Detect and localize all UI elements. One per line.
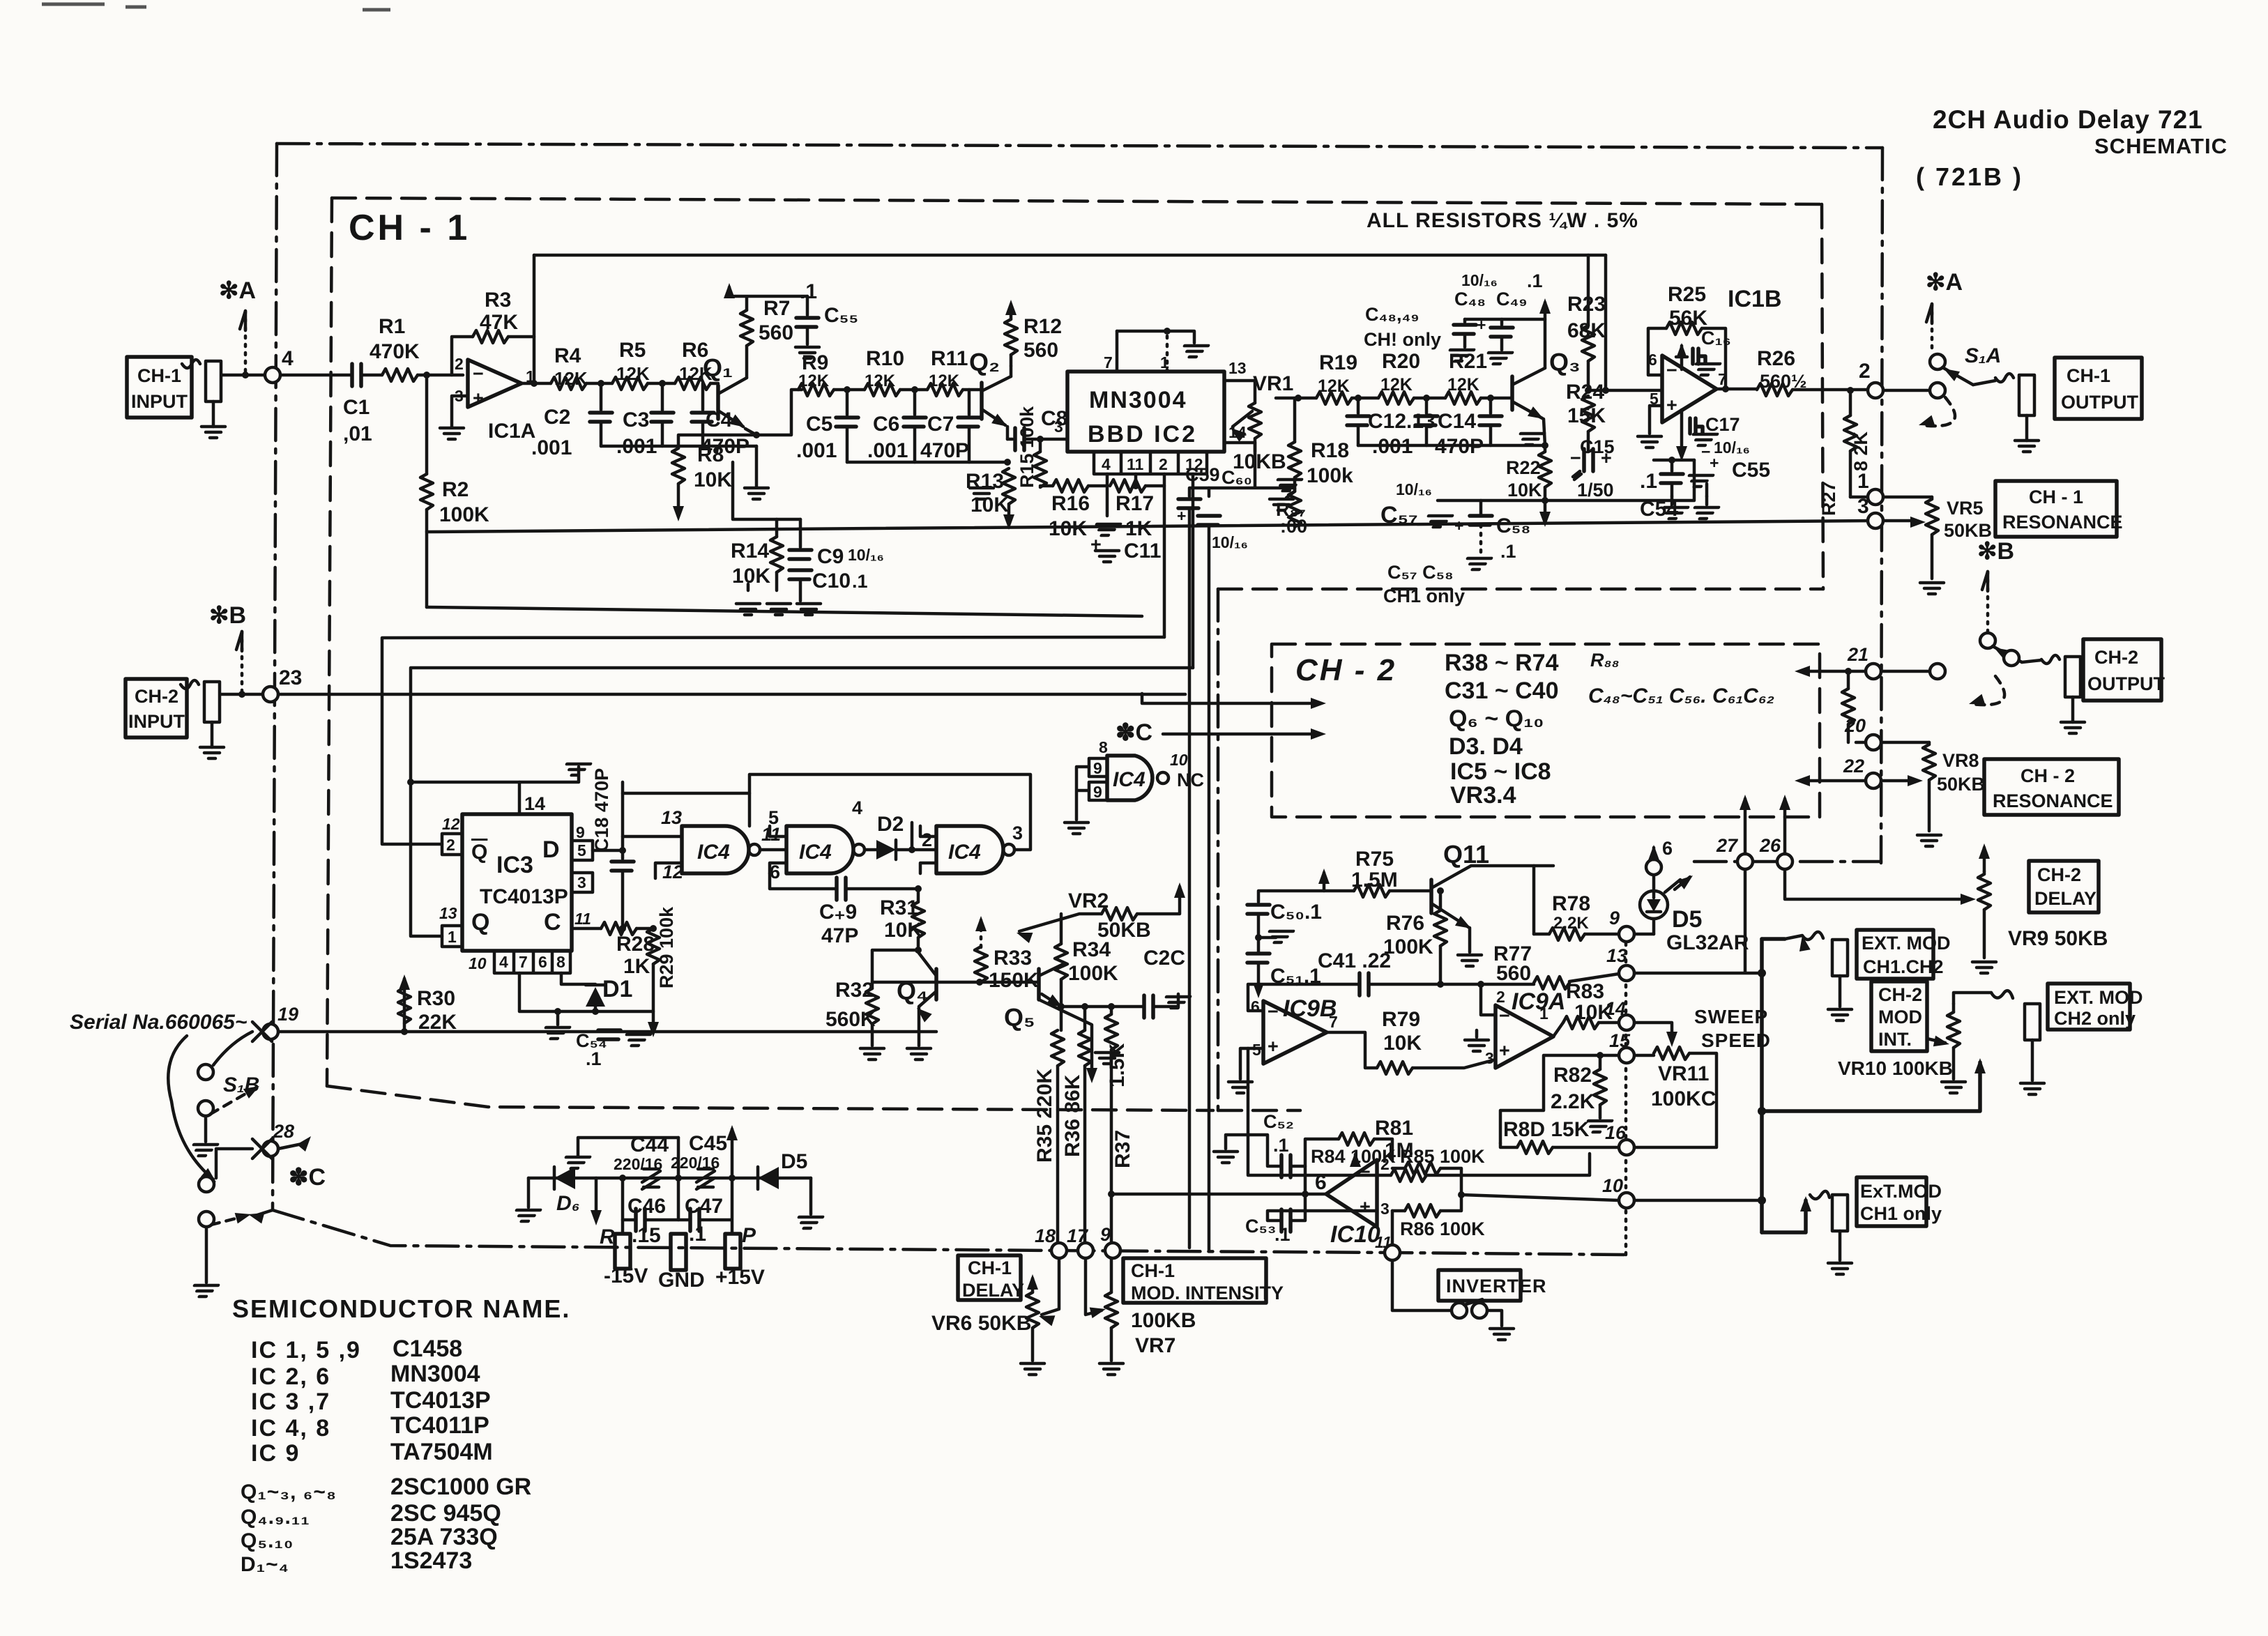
LFO R75	[1324, 873, 1354, 891]
svg-text:+: +	[473, 388, 484, 408]
svg-text:C17: C17	[1705, 414, 1740, 435]
svg-text:EXT. MOD: EXT. MOD	[2054, 987, 2143, 1008]
svg-text:2: 2	[1159, 455, 1168, 473]
resistor R14	[775, 519, 779, 537]
C52 branch	[1291, 1166, 1305, 1194]
svg-text:IC1B: IC1B	[1728, 286, 1781, 312]
switch S1A	[1930, 354, 1945, 369]
switch S2A	[1980, 633, 1995, 648]
R81 feedback loop	[1248, 1048, 1391, 1175]
svg-text:OUTPUT: OUTPUT	[2061, 392, 2139, 413]
C60 column	[1208, 488, 1211, 496]
svg-text:.15: .15	[632, 1224, 661, 1247]
diode D6	[554, 1167, 575, 1189]
svg-text:22K: 22K	[418, 1011, 457, 1034]
svg-text:C1: C1	[343, 396, 370, 419]
svg-text:12K: 12K	[929, 372, 960, 390]
svg-text:12K: 12K	[554, 368, 588, 389]
arrow after 28	[278, 1143, 305, 1149]
node14 wire to VR11 wiper	[1634, 1023, 1672, 1034]
IC3 pin 14 top	[519, 767, 579, 814]
wire VR1 node to R19	[1276, 397, 1316, 400]
svg-text:VR3.4: VR3.4	[1450, 782, 1516, 809]
svg-text:R78: R78	[1552, 892, 1590, 915]
CH-1 dashed frame top edge	[332, 198, 1822, 204]
node 14	[1619, 1015, 1634, 1030]
X mark at node 19	[252, 1022, 272, 1041]
capacitor C55a	[806, 296, 809, 315]
long resonance wire y763	[427, 521, 1875, 532]
svg-text:10/₁₆: 10/₁₆	[1212, 533, 1248, 551]
EXT.MOD CH1 only box	[1857, 1177, 1926, 1226]
svg-text:14: 14	[524, 793, 545, 814]
svg-text:ExT.MOD: ExT.MOD	[1860, 1181, 1942, 1202]
svg-text:C7: C7	[927, 413, 954, 436]
svg-text:INT.: INT.	[1878, 1029, 1912, 1050]
svg-text:C: C	[544, 909, 561, 935]
capacitor C7	[968, 390, 971, 415]
node 26	[1777, 854, 1793, 869]
svg-text:CH-2: CH-2	[2094, 647, 2138, 668]
capacitor C3	[661, 408, 664, 412]
capacitor C14	[1489, 398, 1493, 413]
capacitor C9/C10 stack	[799, 519, 802, 547]
CH-2 OUTPUT box	[2083, 639, 2161, 701]
svg-text:10K: 10K	[884, 919, 922, 942]
gate a to b wire	[760, 848, 786, 852]
svg-text:26: 26	[1759, 835, 1781, 856]
svg-text:CH - 1: CH - 1	[349, 208, 470, 248]
svg-text:.1: .1	[1640, 470, 1657, 493]
node 18	[1051, 1243, 1067, 1258]
resistor R34	[1060, 914, 1063, 944]
svg-text:,01: ,01	[343, 422, 372, 445]
svg-text:Serial Na.660065~: Serial Na.660065~	[70, 1011, 247, 1034]
capacitor C46	[623, 1178, 636, 1220]
wire 23 long	[278, 693, 1185, 696]
IC9A opamp	[1495, 1005, 1553, 1068]
wire node	[1352, 397, 1378, 400]
IC9B out to R79	[1327, 1032, 1377, 1068]
svg-text:2: 2	[1859, 360, 1871, 383]
IC3 pin 3	[572, 873, 593, 892]
resistor R17	[1088, 484, 1107, 488]
C58 cap	[1470, 516, 1492, 525]
svg-text:100k: 100k	[1307, 464, 1353, 487]
svg-text:R30: R30	[417, 987, 455, 1010]
CH-1 dashed frame right edge	[1822, 204, 1823, 589]
VR8 pot	[1928, 742, 1931, 744]
svg-text:6: 6	[1251, 997, 1260, 1016]
C51	[1247, 954, 1270, 963]
svg-text:R4: R4	[554, 344, 581, 367]
resistor R87	[1274, 480, 1302, 491]
resistor R24	[1585, 387, 1592, 394]
resistor R23	[1587, 255, 1590, 326]
outer frame right edge	[1881, 148, 1882, 863]
dash segment right of divider	[1218, 1109, 1300, 1113]
pin3 gnd	[1465, 1040, 1489, 1051]
IC3 box	[462, 814, 572, 951]
svg-text:C41 .22: C41 .22	[1318, 949, 1391, 972]
CH-1 input jack	[182, 360, 225, 438]
svg-text:2.2K: 2.2K	[1551, 1090, 1595, 1113]
svg-text:12K: 12K	[1380, 375, 1413, 395]
IC3 top-left supply dot	[407, 779, 414, 786]
IC1A output wire	[522, 382, 551, 385]
resistor R37 column	[1108, 1003, 1115, 1010]
CH-1 dashed frame left edge	[327, 198, 332, 1086]
C57 C58 rail	[1438, 484, 1694, 500]
svg-text:R26: R26	[1757, 347, 1795, 370]
svg-text:6: 6	[1662, 838, 1673, 859]
pin11 column	[1134, 474, 1138, 486]
R84 feedback	[1305, 1139, 1339, 1166]
svg-text:.1: .1	[1273, 1135, 1289, 1156]
svg-text:13: 13	[1606, 945, 1627, 966]
svg-text:R₈₈: R₈₈	[1590, 650, 1620, 671]
resistor R79	[1377, 1062, 1413, 1074]
serial curve arrow	[168, 1036, 213, 1179]
CH-2 MOD INT box	[1871, 981, 1927, 1051]
svg-text:CH-1: CH-1	[2067, 365, 2110, 386]
svg-text:D3. D4: D3. D4	[1449, 733, 1523, 760]
svg-text:C₅₂: C₅₂	[1263, 1111, 1294, 1132]
svg-text:R29 100k: R29 100k	[656, 906, 677, 988]
EXT. MOD CH2 only box	[2048, 984, 2130, 1030]
svg-text:МOD: МOD	[1878, 1007, 1922, 1027]
transistor Q11	[1429, 880, 1433, 913]
svg-text:.1: .1	[1527, 270, 1543, 291]
svg-text:R38 ~ R74: R38 ~ R74	[1445, 650, 1559, 676]
rail left ground	[527, 1178, 531, 1207]
svg-text:C₁₆: C₁₆	[1701, 328, 1731, 349]
svg-text:4: 4	[852, 797, 862, 818]
svg-text:IC4: IC4	[948, 841, 981, 864]
svg-text:Q₆ ~ Q₁₀: Q₆ ~ Q₁₀	[1449, 705, 1544, 732]
svg-text:15: 15	[1609, 1030, 1631, 1051]
transistor Q4	[934, 969, 938, 1000]
svg-text:12K: 12K	[865, 372, 896, 390]
svg-text:11: 11	[1127, 455, 1144, 473]
svg-text:EXT. МOD: EXT. МOD	[1862, 933, 1951, 954]
svg-text:+: +	[1454, 517, 1463, 535]
resistor R81	[1391, 1169, 1426, 1182]
caps bottom rail 3	[1358, 444, 1545, 448]
svg-text:10: 10	[1602, 1175, 1623, 1196]
svg-text:C9: C9	[817, 545, 844, 568]
svg-text:INVERTER: INVERTER	[1446, 1276, 1547, 1297]
svg-text:50KB: 50KB	[1937, 774, 1985, 795]
svg-text:21: 21	[1847, 644, 1869, 665]
svg-text:CH-1: CH-1	[1131, 1260, 1175, 1281]
svg-text:1.5M: 1.5M	[1351, 869, 1398, 892]
down arrow branch	[1039, 1000, 1092, 1068]
svg-text:R3: R3	[485, 289, 511, 312]
svg-text:15K: 15K	[1567, 404, 1606, 427]
svg-text:C15: C15	[1580, 436, 1615, 457]
C16 symbol	[1676, 346, 1687, 369]
svg-text:MOD. INTENSITY: MOD. INTENSITY	[1131, 1283, 1284, 1304]
C41 cap	[1297, 983, 1360, 986]
svg-text:CH-1: CH-1	[968, 1257, 1012, 1278]
svg-text:2: 2	[1496, 988, 1505, 1006]
wire node	[1414, 397, 1445, 400]
transistor Q3	[1510, 376, 1514, 410]
rail ground	[755, 446, 759, 487]
svg-text:6: 6	[1315, 1171, 1327, 1194]
wire R1 to IC1A	[418, 374, 463, 377]
svg-text:Q₂: Q₂	[969, 348, 1000, 376]
diode D2	[865, 848, 876, 852]
pin 6 arrow above LED	[1652, 870, 1656, 891]
svg-text:R15 100k: R15 100k	[1017, 406, 1037, 488]
svg-text:CH1.CH2: CH1.CH2	[1863, 956, 1944, 977]
svg-text:C₄₉: C₄₉	[1496, 289, 1528, 309]
R3 to feedback node	[508, 335, 534, 339]
resistor R16	[1053, 480, 1088, 492]
node 15	[1619, 1048, 1634, 1063]
X mark at 28	[252, 1139, 272, 1159]
svg-text:27: 27	[1716, 835, 1739, 856]
VR7 pot	[1105, 1292, 1118, 1328]
resistor R29 (vertical)	[647, 928, 660, 964]
svg-text:OUTPUT: OUTPUT	[2087, 673, 2166, 694]
svg-text:C45: C45	[689, 1132, 727, 1155]
svg-text:5: 5	[577, 841, 586, 859]
svg-text:C10: C10	[812, 569, 851, 593]
bus left arrow stub	[255, 1210, 273, 1216]
svg-text:12K: 12K	[1318, 376, 1350, 396]
svg-text:25A 733Q: 25A 733Q	[390, 1524, 498, 1550]
svg-text:C₄₈,₄₉: C₄₈,₄₉	[1365, 304, 1420, 325]
svg-text:6: 6	[538, 953, 547, 971]
svg-text:9: 9	[576, 823, 585, 841]
Q4 to Q5 wire	[936, 981, 1039, 984]
node 3 wiper arrow	[1883, 519, 1910, 523]
R78	[1549, 928, 1585, 940]
svg-text:20: 20	[1844, 715, 1866, 736]
wire from rail corner up to IC1B area	[1693, 460, 1696, 484]
svg-text:3: 3	[1380, 1200, 1390, 1218]
wire / node	[586, 382, 612, 385]
svg-text:Q₅: Q₅	[1004, 1003, 1035, 1032]
CH-2 input wire node 23	[220, 693, 263, 696]
gate a inputs	[623, 835, 682, 839]
svg-text:GL32AR: GL32AR	[1666, 931, 1749, 954]
svg-text:220/16: 220/16	[671, 1154, 720, 1172]
CH-2 dashed box	[1272, 644, 1820, 817]
resistor R28	[601, 922, 637, 935]
resistor R4	[551, 377, 586, 390]
svg-text:C₊9: C₊9	[819, 901, 857, 924]
node 16	[1619, 1140, 1634, 1155]
node 4	[265, 367, 280, 383]
node 17	[1078, 1243, 1093, 1258]
svg-text:10/₁₆: 10/₁₆	[1714, 438, 1750, 457]
svg-text:2.2K: 2.2K	[1553, 914, 1589, 933]
svg-text:18: 18	[1035, 1225, 1056, 1246]
R22 column	[1542, 442, 1548, 449]
node 13	[1619, 965, 1634, 981]
power terminal GND	[671, 1234, 686, 1270]
svg-text:C14: C14	[1438, 410, 1476, 433]
svg-text:TC4011P: TC4011P	[390, 1412, 489, 1439]
svg-text:C6: C6	[873, 413, 899, 436]
feedback vertical to top rail	[533, 255, 536, 383]
resistor R21	[1445, 392, 1481, 404]
C48/C49 top rail	[1465, 318, 1545, 321]
svg-text:100K: 100K	[439, 503, 489, 526]
power rail	[528, 1177, 811, 1180]
MN3004 bottom pin boxes 4 11 2 12	[1094, 452, 1207, 474]
arrows up from 26/27	[1744, 799, 1747, 854]
VR1 pot	[1254, 381, 1257, 403]
VR5 pot	[1931, 497, 1934, 499]
svg-text:D5: D5	[781, 1150, 807, 1173]
capacitor C1	[352, 364, 361, 386]
svg-text:VR6 50KB: VR6 50KB	[931, 1312, 1031, 1335]
svg-text:R1: R1	[379, 315, 405, 338]
svg-text:1K: 1K	[623, 955, 650, 978]
top rail to ground	[1117, 331, 1194, 343]
resistor R80	[1500, 1143, 1517, 1147]
svg-text:−: −	[1268, 1001, 1279, 1022]
svg-text:S₁A: S₁A	[1965, 344, 2001, 367]
pin 14 stub	[1224, 441, 1255, 445]
svg-text:.001: .001	[531, 436, 572, 459]
resistor R13 below Q2	[1004, 459, 1011, 466]
resistor R2	[425, 375, 429, 474]
capacitor C20	[1144, 995, 1153, 1018]
svg-text:VR7: VR7	[1135, 1334, 1175, 1357]
resistor R25 feedback	[1648, 328, 1666, 375]
svg-text:Q₅.₁₀: Q₅.₁₀	[241, 1529, 294, 1552]
svg-text:R8D 15K: R8D 15K	[1503, 1118, 1590, 1141]
CH-1 MOD INTENSITY box	[1123, 1258, 1266, 1303]
svg-text:R27: R27	[1818, 481, 1839, 516]
svg-text:✻B: ✻B	[209, 602, 246, 629]
node 9	[1105, 1243, 1120, 1258]
C59 column	[1189, 443, 1295, 496]
svg-text:-15V: -15V	[604, 1264, 648, 1287]
svg-text:R37: R37	[1111, 1130, 1134, 1168]
wire node	[900, 388, 927, 392]
Q3 collector arrow up	[1544, 303, 1547, 368]
svg-text:C3: C3	[623, 408, 649, 431]
svg-text:NC: NC	[1177, 770, 1204, 790]
CH-2 DELAY box	[2029, 861, 2099, 912]
MN3004 box	[1067, 372, 1224, 452]
wire / node	[648, 382, 675, 385]
IC9B pin5 stub/gnd	[1240, 1048, 1263, 1079]
svg-text:VR8: VR8	[1942, 750, 1979, 771]
staircase wire pin12 to left	[411, 668, 1193, 936]
svg-text:VR11: VR11	[1658, 1062, 1709, 1085]
svg-text:ALL RESISTORS ¼W . 5%: ALL RESISTORS ¼W . 5%	[1367, 209, 1638, 232]
outer frame left edge	[273, 144, 277, 1210]
svg-text:MN3004: MN3004	[390, 1361, 480, 1387]
node 9b	[1619, 926, 1634, 942]
wire y1594 to VR10	[1762, 1062, 1980, 1111]
resistor R36 column	[1083, 1007, 1087, 1030]
svg-text:2: 2	[922, 830, 932, 850]
capacitor C12	[1357, 398, 1360, 413]
C19 cap branch	[770, 873, 837, 889]
svg-text:10: 10	[1170, 751, 1188, 769]
svg-text:DELAY: DELAY	[962, 1280, 1024, 1301]
resistor R1	[382, 369, 418, 381]
svg-text:R76: R76	[1386, 912, 1424, 935]
pin 11 wire to R28	[572, 927, 601, 931]
svg-text:SCHEMATIC: SCHEMATIC	[2094, 134, 2228, 158]
svg-text:R12: R12	[1023, 315, 1062, 338]
resistor R82	[1594, 1069, 1606, 1105]
switch S1B	[213, 1032, 252, 1065]
CH-1 dashed frame bottom edge left part	[327, 1086, 1213, 1110]
resistor R5	[612, 377, 648, 390]
svg-text:D1: D1	[602, 976, 632, 1002]
svg-text:✻A: ✻A	[219, 277, 256, 304]
feedback rail corner down	[1604, 255, 1608, 390]
svg-text:C₆₀: C₆₀	[1221, 467, 1252, 488]
svg-text:+15V: +15V	[715, 1266, 765, 1289]
CH-1/CH-2 divider dash-dot vertical	[1217, 589, 1220, 1110]
VR9 pot	[1983, 871, 1986, 874]
Q2 emitter down to C8 wire	[1006, 427, 1010, 439]
wire node4 to C1	[280, 374, 352, 377]
svg-text:10: 10	[469, 954, 487, 972]
svg-text:C₅₀.1: C₅₀.1	[1270, 901, 1322, 924]
R88 column (ch2 mixer R)	[1845, 668, 1852, 675]
C17 symbol	[1680, 410, 1684, 446]
wire R21 to Q3	[1481, 397, 1512, 400]
svg-text:10K: 10K	[1507, 480, 1542, 500]
inverter switch	[1392, 1260, 1452, 1310]
svg-text:P: P	[742, 1224, 756, 1247]
svg-text:C1458: C1458	[393, 1336, 462, 1362]
op-amp IC1A	[468, 360, 522, 407]
svg-text:C18 470P: C18 470P	[591, 768, 612, 852]
svg-text:.1: .1	[689, 1223, 706, 1246]
svg-text:R31: R31	[880, 896, 918, 919]
svg-text:D₁~₄: D₁~₄	[241, 1553, 289, 1576]
star B arrow right	[1982, 572, 1988, 591]
svg-text:7: 7	[519, 953, 528, 971]
svg-text:23: 23	[279, 666, 302, 689]
svg-text:TC4013P: TC4013P	[390, 1387, 491, 1414]
svg-text:R14: R14	[731, 540, 769, 563]
svg-text:R36 86K: R36 86K	[1061, 1074, 1084, 1157]
diode D1	[561, 973, 595, 984]
svg-text:14: 14	[1228, 423, 1247, 441]
svg-text:IC4: IC4	[799, 841, 832, 864]
resistor R7	[740, 310, 753, 346]
node 20	[1866, 735, 1881, 750]
svg-text:10/₁₆: 10/₁₆	[1461, 271, 1498, 289]
svg-text:IC 1, 5 ,9: IC 1, 5 ,9	[251, 1337, 361, 1363]
wire y745 cluster R14 C9 C10	[733, 462, 800, 519]
svg-text:13: 13	[439, 904, 457, 922]
svg-text:2CH Audio Delay 721: 2CH Audio Delay 721	[1933, 105, 2203, 134]
caps bottom rail 2	[847, 461, 1009, 464]
resistor R20	[1378, 392, 1414, 404]
resistor R18	[1295, 395, 1302, 402]
capacitor C47	[678, 1178, 690, 1220]
wire node21 left arrow	[1810, 670, 1930, 673]
R2 bottom loop wire	[427, 607, 1142, 616]
svg-text:R34: R34	[1072, 938, 1111, 961]
